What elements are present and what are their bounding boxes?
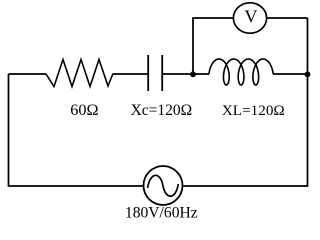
svg-text:180V/60Hz: 180V/60Hz (125, 204, 198, 221)
svg-text:Xc=120Ω: Xc=120Ω (131, 102, 193, 119)
svg-text:XL=120Ω: XL=120Ω (222, 102, 285, 119)
svg-text:V: V (245, 7, 258, 27)
svg-text:60Ω: 60Ω (70, 101, 98, 119)
